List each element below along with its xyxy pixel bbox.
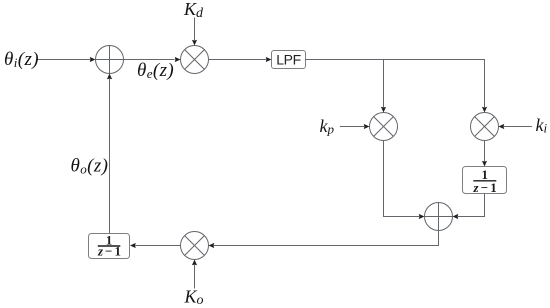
X cross of M4 bbox=[185, 236, 205, 256]
X cross of M3 bbox=[475, 117, 495, 137]
arrowhead into M2 from top bbox=[381, 107, 386, 113]
plus sign of S1 bbox=[96, 59, 124, 61]
block B2 integrator 1/(z-1) bbox=[89, 234, 130, 259]
arrowhead into M2 from left (kp) bbox=[364, 124, 370, 129]
wire input theta_i to summer S1 bbox=[38, 59, 91, 61]
svg-text:Ko: Ko bbox=[184, 286, 204, 308]
svg-text:z−1: z−1 bbox=[473, 180, 497, 195]
svg-text:θo(z): θo(z) bbox=[71, 156, 109, 177]
arrowhead into S1 from left bbox=[90, 57, 96, 62]
svg-text:ki: ki bbox=[536, 115, 548, 136]
summing junction S2 bbox=[425, 203, 453, 231]
arrowhead into B1 from top bbox=[482, 161, 487, 167]
wire B1 to summer S2 bbox=[458, 194, 485, 217]
wire LPF output to right corner bbox=[306, 60, 485, 108]
multiplier M3 (ki) bbox=[471, 113, 499, 141]
multiplier M2 (kp) bbox=[370, 113, 398, 141]
arrowhead into S1 from below bbox=[107, 74, 112, 80]
block B1 integrator 1/(z-1) bbox=[463, 167, 507, 194]
wire M4 to block B2 bbox=[136, 245, 181, 247]
arrowhead into B2 from right bbox=[130, 243, 136, 248]
wire S2 output down and left to multiplier M4 bbox=[214, 231, 439, 246]
arrowhead into M3 from right (ki) bbox=[499, 124, 505, 129]
X cross of M2 bbox=[374, 117, 394, 137]
wire ki input to M3 bbox=[504, 126, 532, 128]
arrowhead into S2 from left bbox=[419, 214, 425, 219]
multiplier M4 (Ko) bbox=[181, 232, 209, 260]
svg-text:θi(z): θi(z) bbox=[4, 49, 39, 70]
arrowhead into M4 from right bbox=[209, 243, 215, 248]
arrowhead into M1 from top (Kd) bbox=[192, 40, 197, 46]
multiplier M1 (phase detector gain Kd) bbox=[181, 46, 209, 74]
svg-text:θe(z): θe(z) bbox=[137, 60, 174, 81]
X cross of M1 bbox=[185, 50, 205, 70]
svg-text:kp: kp bbox=[320, 116, 335, 137]
svg-text:Kd: Kd bbox=[183, 0, 204, 21]
block LPF bbox=[272, 51, 306, 69]
summing junction S1 bbox=[96, 46, 124, 74]
arrowhead into S2 from right bbox=[453, 214, 459, 219]
wire Kd input to M1 bbox=[194, 18, 196, 41]
wire branch down to multiplier M2 bbox=[383, 60, 385, 108]
wire S1 to multiplier M1 bbox=[124, 59, 175, 61]
arrowhead into M1 from left bbox=[175, 57, 181, 62]
wire M3 to integrator block B1 bbox=[484, 141, 486, 162]
svg-text:LPF: LPF bbox=[276, 52, 300, 68]
wire M1 to LPF bbox=[209, 59, 267, 61]
wire kp input to M2 bbox=[340, 126, 364, 128]
arrowhead into M4 from below (Ko) bbox=[192, 260, 197, 266]
fraction 1/(z-1) in B1 bbox=[473, 167, 497, 195]
arrowhead into M3 from top bbox=[482, 107, 487, 113]
fraction 1/(z-1) in B2 bbox=[97, 232, 121, 258]
wire Ko input to M4 bbox=[194, 265, 196, 289]
arrowhead into LPF bbox=[266, 57, 272, 62]
wire M2 to summer S2 bbox=[384, 141, 420, 217]
plus sign of S2 bbox=[425, 216, 453, 218]
wire B2 feedback up to S1 bbox=[109, 79, 111, 234]
